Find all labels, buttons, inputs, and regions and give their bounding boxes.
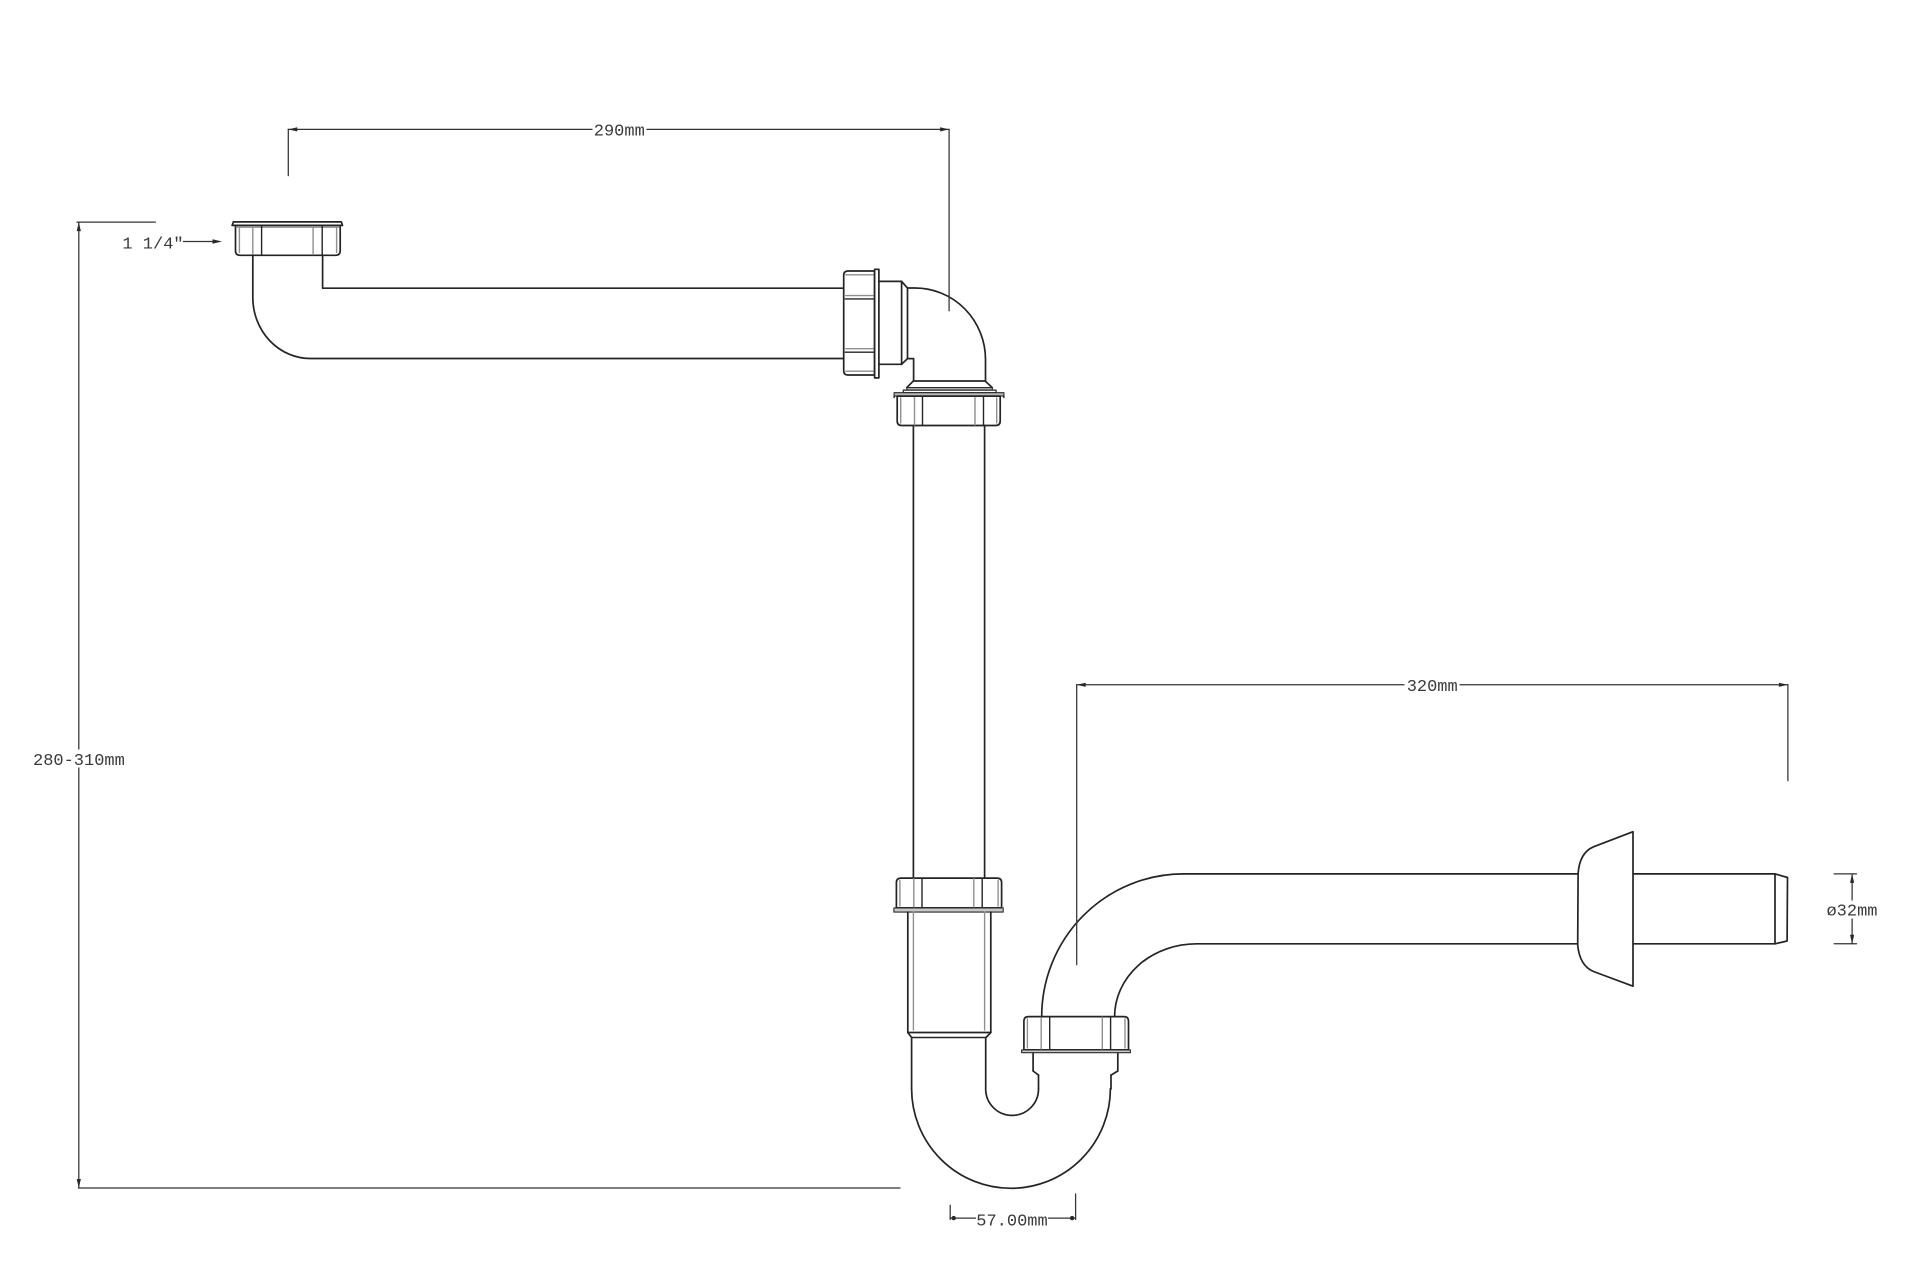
slip nut N3 (elbow outlet nut, vertical axis) — [894, 393, 1004, 426]
slip nut N4 (trap inlet nut) — [894, 878, 1003, 912]
drop pipe (vertical tube from elbow to trap) — [913, 426, 984, 879]
slip nut N2 (elbow inlet nut, horizontal axis) — [844, 269, 879, 378]
escutcheon (wall cone flange) — [1578, 832, 1633, 987]
label 1 1/4 inch with leader arrow — [122, 235, 222, 254]
dimension diameter 32mm (right) — [1823, 874, 1881, 944]
outlet pipe (horizontal wall tube) — [1184, 874, 1788, 944]
svg-text:1 1/4": 1 1/4" — [122, 235, 183, 254]
dimension 320mm (middle right) — [1077, 677, 1788, 965]
dimension 57.00mm (bottom) — [950, 1194, 1075, 1232]
dimension 290mm (top) — [288, 122, 949, 311]
slip nut N1 (tailpiece 1 1/4" nut, top left) — [232, 222, 342, 255]
trap outlet hub — [1033, 1053, 1118, 1075]
dimension 280-310mm (left) — [30, 222, 900, 1188]
svg-text:280-310mm: 280-310mm — [33, 752, 125, 771]
svg-text:57.00mm: 57.00mm — [976, 1213, 1047, 1232]
svg-text:320mm: 320mm — [1407, 678, 1458, 697]
slip nut N5 (trap outlet nut) — [1022, 1017, 1131, 1053]
outlet bend (pipe from trap outlet nut curving to horizontal) — [1042, 874, 1197, 1017]
svg-text:290mm: 290mm — [594, 123, 645, 142]
svg-text:ø32mm: ø32mm — [1826, 902, 1877, 921]
P-trap U-bend — [912, 1038, 1111, 1189]
inlet tube (from nut N1 to elbow) — [253, 255, 844, 358]
trap inlet hub (upper body of trap) — [908, 912, 991, 1037]
elbow U1 (90 degree bend) — [879, 281, 996, 392]
